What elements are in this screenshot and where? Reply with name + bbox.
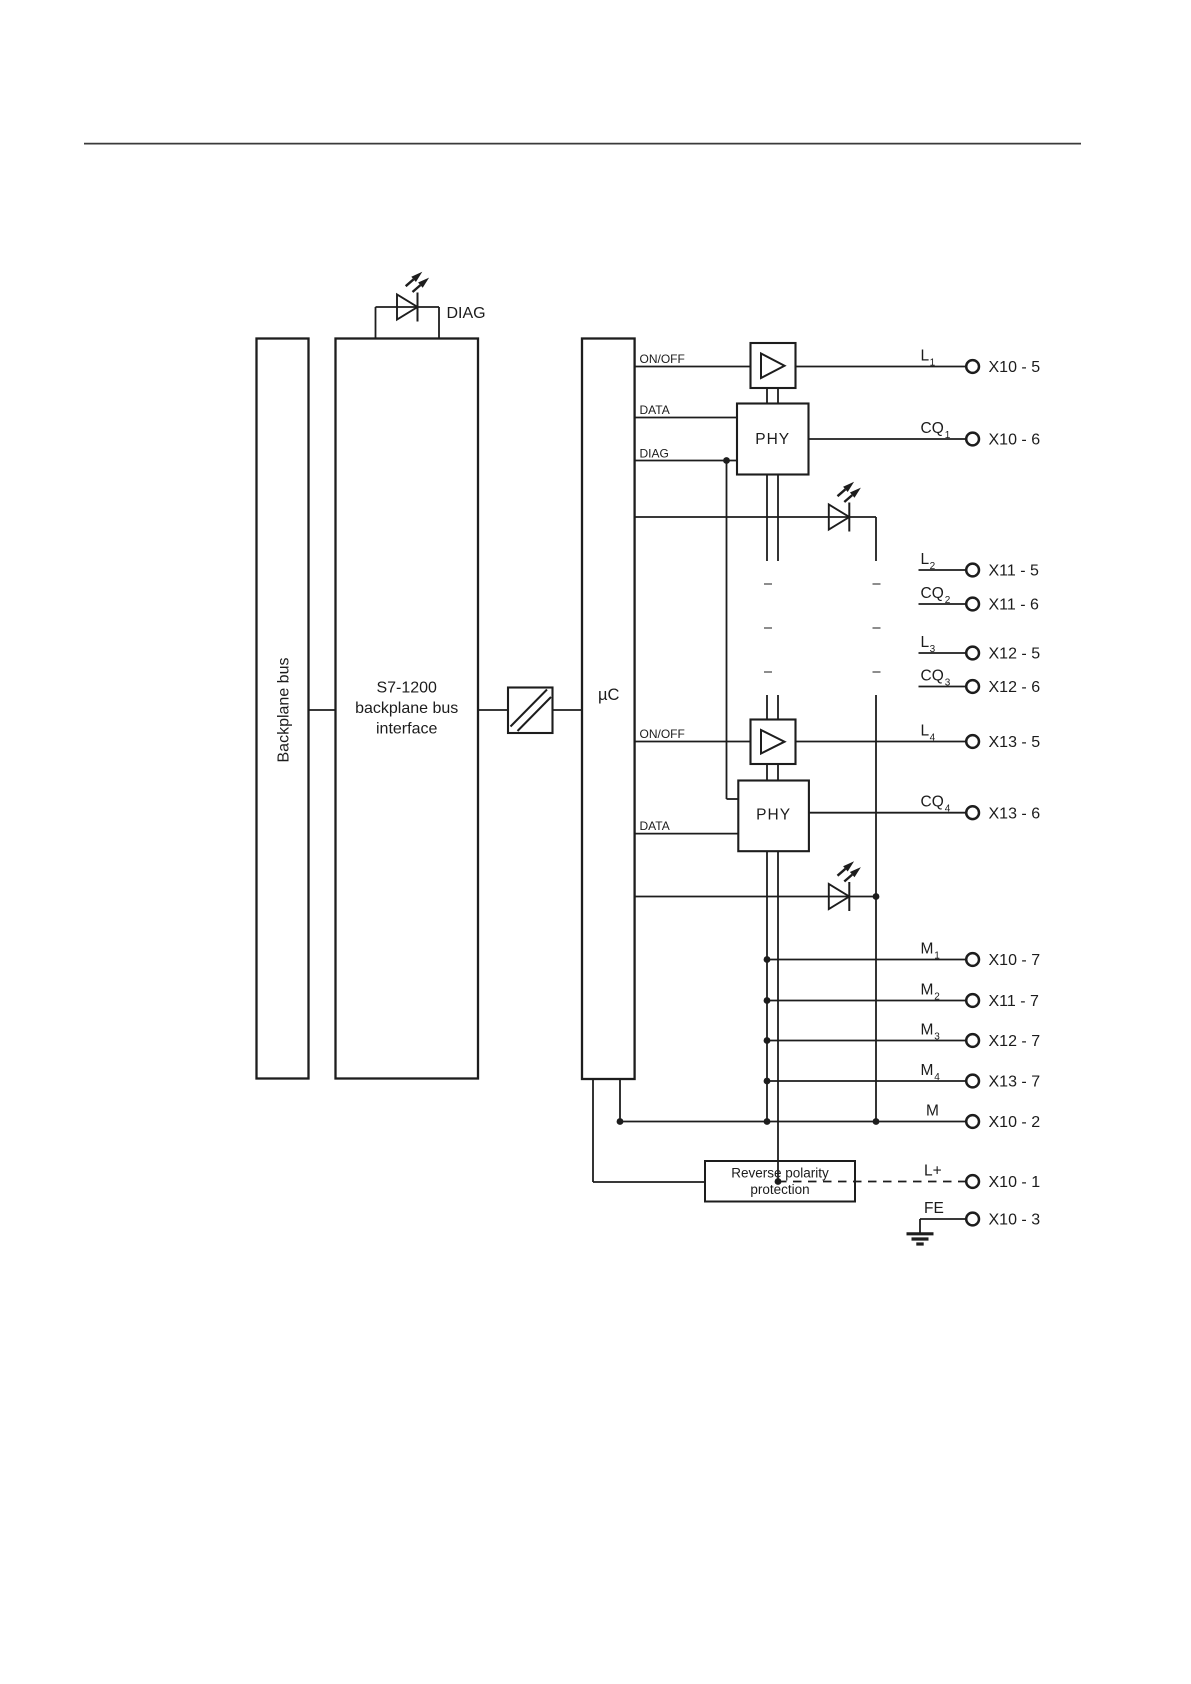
LED channel 1 status diode (829, 505, 850, 530)
wire L1 (796, 366, 967, 368)
terminal X13 - 7 (966, 1075, 979, 1088)
terminal X10 - 5 (966, 360, 979, 373)
wire DIAG channel 1 (635, 460, 737, 462)
svg-text:X12 - 5: X12 - 5 (989, 646, 1041, 663)
wire LED channel 1 (635, 516, 876, 518)
terminal X10 - 6 (966, 433, 979, 446)
terminal X13 - 6 (966, 806, 979, 819)
svg-text:X11 - 5: X11 - 5 (989, 563, 1040, 580)
reverse polarity protection block (705, 1161, 855, 1202)
terminal X10 - 7 (966, 953, 979, 966)
svg-text:X10 - 5: X10 - 5 (989, 359, 1041, 376)
wire M bus (620, 1121, 966, 1123)
wire L4 (796, 741, 967, 743)
wire rail M above driver 4 (766, 695, 768, 720)
wire backplane bus to interface (309, 709, 336, 711)
PHY channel 4 (738, 781, 809, 852)
driver amplifier channel 4 (751, 720, 796, 765)
wire µC to M bus (619, 1079, 621, 1122)
terminal X10 - 1 (966, 1175, 979, 1188)
wire rail L+ above driver 4 (777, 695, 779, 720)
svg-text:DATA: DATA (640, 403, 670, 417)
svg-text:DATA: DATA (640, 819, 670, 833)
wire L+ (dashed) (778, 1181, 966, 1183)
svg-text:X10 - 6: X10 - 6 (989, 432, 1041, 449)
wire DIAG to PHY channel 4 (vertical) (726, 461, 728, 800)
LED channel 1 status light arrows (838, 489, 846, 496)
terminal X11 - 5 (966, 564, 979, 577)
microcontroller U1 µC (582, 339, 635, 1080)
junction M bus (873, 1118, 880, 1125)
svg-text:FE: FE (924, 1200, 944, 1217)
wire M3 (767, 1040, 966, 1042)
wire ON/OFF channel 1 (635, 366, 751, 368)
wire DATA channel 4 (635, 833, 739, 835)
junction M1 on rail (764, 956, 771, 963)
svg-text:protection: protection (750, 1182, 809, 1197)
terminal X13 - 5 (966, 735, 979, 748)
wire µC supply to reverse polarity protection (592, 1079, 594, 1182)
terminal X10 - 3 (966, 1213, 979, 1226)
svg-text:ON/OFF: ON/OFF (640, 352, 685, 366)
isolator (galvanic isolation) (508, 688, 553, 734)
svg-text:DIAG: DIAG (640, 447, 669, 461)
junction L+ inside protection block (775, 1178, 782, 1185)
svg-text:M: M (926, 1103, 939, 1120)
svg-text:backplane bus: backplane bus (355, 700, 458, 717)
wire LED channel 4 (635, 896, 876, 898)
S7-1200 backplane bus interface block (336, 339, 479, 1079)
junction M3 on rail (764, 1037, 771, 1044)
junction M2 on rail (764, 997, 771, 1004)
svg-text:X13 - 6: X13 - 6 (989, 805, 1041, 822)
wire DIAG elbow into PHY channel 4 (727, 798, 739, 800)
terminal X12 - 6 (966, 680, 979, 693)
svg-text:X12 - 6: X12 - 6 (989, 679, 1041, 696)
junction LED4 to return rail (873, 893, 880, 900)
LED channel 4 status diode (829, 884, 850, 909)
wire FE (920, 1218, 966, 1220)
wire M1 (767, 959, 966, 961)
wire rail L+ below PHY1 (777, 475, 779, 562)
wire interface to isolator (478, 709, 508, 711)
PHY channel 1 (737, 404, 809, 475)
LED DIAG light arrows (406, 279, 414, 286)
wire M4 (767, 1080, 966, 1082)
ground FE earth symbol (907, 1232, 934, 1235)
svg-text:ON/OFF: ON/OFF (640, 727, 685, 741)
wire CQ2 stub (919, 603, 967, 605)
wire CQ3 stub (919, 686, 967, 688)
svg-text:X13 - 7: X13 - 7 (989, 1074, 1041, 1091)
terminal X10 - 2 (966, 1115, 979, 1128)
svg-text:L+: L+ (924, 1163, 942, 1180)
junction M4 on rail (764, 1078, 771, 1085)
terminal X12 - 7 (966, 1034, 979, 1047)
terminal X12 - 5 (966, 647, 979, 660)
LED channel 4 status light arrows (838, 869, 846, 876)
svg-text:µC: µC (598, 686, 620, 704)
svg-text:S7-1200: S7-1200 (376, 680, 437, 697)
svg-text:PHY: PHY (756, 807, 791, 824)
wire driver to PHY channel 1 (766, 388, 768, 404)
wire L3 stub (919, 652, 967, 654)
junction M bus (617, 1118, 624, 1125)
junction DIAG node (723, 457, 730, 464)
svg-text:X11 - 6: X11 - 6 (989, 597, 1040, 614)
driver amplifier channel 1 (751, 343, 796, 388)
wire ON/OFF channel 4 (635, 741, 751, 743)
svg-text:X11 - 7: X11 - 7 (989, 993, 1040, 1010)
backplane bus block (257, 339, 309, 1079)
svg-text:PHY: PHY (755, 431, 790, 448)
wire L2 stub (919, 569, 967, 571)
junction M bus (764, 1118, 771, 1125)
wire LED return rail (875, 695, 877, 1122)
wire DATA channel 1 (635, 417, 737, 419)
svg-text:Reverse polarity: Reverse polarity (731, 1166, 829, 1181)
terminal X11 - 6 (966, 598, 979, 611)
svg-text:X10 - 2: X10 - 2 (989, 1114, 1041, 1131)
svg-text:DIAG: DIAG (447, 305, 486, 322)
svg-text:X10 - 1: X10 - 1 (989, 1174, 1041, 1191)
svg-text:X10 - 3: X10 - 3 (989, 1212, 1041, 1229)
wire CQ1 (809, 438, 967, 440)
continuation marks (channels 2,3 omitted) (764, 583, 772, 585)
svg-text:X12 - 7: X12 - 7 (989, 1033, 1041, 1050)
LED DIAG diode (397, 295, 418, 320)
svg-text:interface: interface (376, 721, 437, 738)
wire M2 (767, 1000, 966, 1002)
wire rail L+ below PHY4 (777, 851, 779, 1181)
wire isolator to microcontroller (553, 709, 583, 711)
wire rail M below PHY1 (766, 475, 768, 562)
wire DIAG LED branch (376, 306, 440, 308)
wire driver to PHY channel 4 (766, 764, 768, 781)
wire LED1 to return rail (875, 517, 877, 561)
svg-text:Backplane bus: Backplane bus (276, 658, 293, 763)
wire CQ4 (809, 812, 966, 814)
wire rail M below PHY4 (766, 851, 768, 1121)
page header rule (84, 143, 1081, 145)
terminal X11 - 7 (966, 994, 979, 1007)
svg-text:X10 - 7: X10 - 7 (989, 952, 1041, 969)
svg-text:X13 - 5: X13 - 5 (989, 734, 1041, 751)
